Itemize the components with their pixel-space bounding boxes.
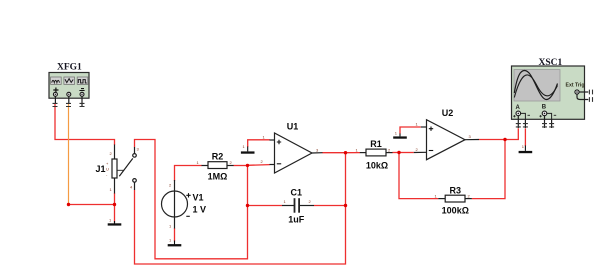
wire: R2 pin 2 to summing node [233, 165, 247, 167]
wire: common node to J1 coil ground node [69, 204, 115, 206]
wire: summing node down to C1 left [247, 166, 249, 206]
oscilloscope XSC1 [512, 58, 593, 128]
wire: C1 left lead [248, 205, 283, 207]
wire: U1 output node down to C1 right node [345, 153, 347, 206]
wire: U2 inverting node to U2 input pin [399, 152, 414, 154]
wire: U2 output to oscilloscope channel A [479, 128, 519, 139]
resistor R3 [435, 185, 472, 215]
op-amp U1 [261, 122, 323, 174]
wire: oscilloscope A- to ground G5 [524, 128, 526, 146]
wire: J1 coil pin 1 to ground G1 [114, 193, 116, 223]
svg-text:U1: U1 [287, 122, 299, 132]
svg-text:10kΩ: 10kΩ [366, 160, 388, 170]
wire: R1 pin 2 to U2 inverting node [392, 152, 399, 154]
function generator XFG1 [49, 62, 89, 107]
svg-text:1uF: 1uF [288, 214, 305, 224]
junction: C1 left branch [246, 204, 249, 207]
junction: coil pin1 / ground [113, 203, 116, 206]
resistor R1 [356, 139, 393, 171]
svg-text:1MΩ: 1MΩ [208, 172, 228, 182]
resistor R2 [197, 151, 234, 181]
wire: U1 output node to R1 pin 1 [346, 152, 361, 154]
wire: R3 pin 1 up to U2 inverting node [399, 153, 438, 199]
junction: U2 output / R3 feedback node [503, 138, 506, 141]
svg-text:U2: U2 [442, 108, 454, 118]
svg-text:1 V: 1 V [193, 205, 207, 215]
wire: J1 contact bottom to C1 right node (outer loop) [135, 190, 346, 264]
ground G4 (U2 +) [393, 131, 407, 139]
svg-text:V1: V1 [193, 193, 204, 203]
relay J1 [96, 145, 140, 194]
wire: V1 plus to R2 pin 1 [175, 166, 202, 182]
ground G5 (scope A-) [519, 144, 533, 153]
svg-text:R3: R3 [450, 185, 462, 195]
svg-text:R1: R1 [370, 139, 382, 149]
wire: XFG1 + output to J1 coil pin 2 [55, 104, 115, 146]
wire: output node down to R3 pin 2 [472, 140, 505, 199]
junction: C1 right / output vertical [344, 204, 347, 207]
junction: U2 inverting node [397, 151, 400, 154]
ground G1 (J1 coil / common) [108, 218, 122, 226]
svg-text:B: B [542, 105, 547, 111]
wire: V1 minus to ground G2 [174, 228, 176, 242]
svg-text:U: U [106, 167, 109, 172]
wire: XFG1 common down (orange net) [68, 104, 70, 205]
svg-text:100kΩ: 100kΩ [442, 206, 469, 216]
svg-text:XFG1: XFG1 [57, 62, 82, 72]
wire: summing node to U1 inverting input [248, 164, 270, 167]
op-amp U2 [414, 108, 479, 160]
ground G3 (U1 +) [241, 144, 255, 154]
junction: summing node (R2/U1-/C1) [246, 164, 249, 167]
svg-text:J1: J1 [96, 164, 106, 174]
capacitor C1 [282, 187, 314, 224]
junction: common/coil ground node [67, 203, 70, 206]
dc source V1 [162, 180, 207, 229]
svg-text:A: A [516, 105, 521, 111]
wire: U1 output to node [322, 152, 345, 154]
svg-text:C1: C1 [291, 187, 303, 197]
junction: U1 output node [344, 151, 347, 154]
wire: U2 non-inverting input to ground G4 [400, 127, 421, 134]
svg-text:Ext Trig: Ext Trig [566, 82, 585, 88]
wire: J1 contact top to C1 left node (reset loop) [135, 140, 248, 259]
wire: U1 non-inverting input to ground G3 [248, 140, 270, 147]
ground G2 (V1) [168, 238, 182, 247]
wire: C1 right lead to output vertical [314, 205, 346, 207]
svg-text:R2: R2 [212, 151, 224, 161]
